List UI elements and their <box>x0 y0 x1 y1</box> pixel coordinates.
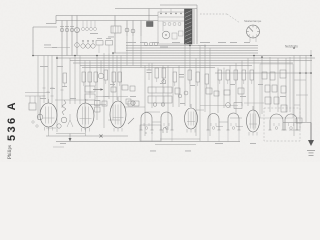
label <box>108 36 114 39</box>
wire bus 3 <box>126 50 258 52</box>
capacitor C14 <box>162 80 166 84</box>
wire dashed diagonal <box>227 14 240 23</box>
wire <box>230 117 242 119</box>
capacitor trimmer row C1-C4 <box>60 16 80 56</box>
resistor R30 <box>130 86 135 91</box>
tube socket S6 <box>269 114 285 130</box>
label <box>90 32 98 35</box>
wire <box>167 66 169 131</box>
wire <box>103 53 105 128</box>
wire <box>199 46 201 142</box>
resistor R25 <box>134 101 139 106</box>
label <box>258 83 263 86</box>
wire <box>162 66 164 107</box>
fuse F1 <box>296 118 302 123</box>
wire <box>116 56 118 101</box>
node junction <box>96 55 98 57</box>
wire <box>200 105 238 107</box>
node junction <box>310 72 312 74</box>
resistor R1 (dark) <box>147 22 154 27</box>
capacitor block left <box>25 96 45 120</box>
wire <box>96 96 128 98</box>
wire <box>277 58 279 112</box>
label <box>95 99 100 102</box>
resistor R31 <box>111 87 116 92</box>
node junction <box>56 57 58 59</box>
wire <box>241 61 243 107</box>
wire <box>305 56 307 123</box>
resistor R27 <box>214 91 219 96</box>
lamp indicator <box>61 117 67 123</box>
wire <box>37 56 39 121</box>
wire <box>108 53 110 99</box>
capacitor C12 <box>179 75 184 78</box>
resistor R28 <box>238 88 244 94</box>
wire <box>144 66 146 137</box>
wire <box>140 21 142 37</box>
resistor network <box>148 87 172 106</box>
label <box>110 83 115 86</box>
resistor R26 <box>206 88 212 94</box>
wire <box>289 129 300 131</box>
wire <box>195 58 197 136</box>
wire bus 10 <box>82 67 215 69</box>
wire <box>89 61 91 99</box>
resistor R24 <box>128 101 133 106</box>
wire <box>196 109 204 111</box>
capacitor C13 <box>98 73 104 79</box>
label <box>280 95 286 98</box>
svg-text:Philips: Philips <box>8 145 13 159</box>
wire antenna lead <box>33 27 57 56</box>
wire <box>217 68 219 114</box>
wire <box>108 119 120 121</box>
node junction <box>253 55 255 57</box>
capacitor group right <box>226 103 242 109</box>
label brand Philips <box>8 145 13 159</box>
wire <box>209 48 211 136</box>
resistor R4 <box>88 72 92 86</box>
resistor R21 <box>224 90 230 95</box>
label <box>230 41 237 44</box>
label <box>160 82 166 85</box>
wire <box>253 56 255 131</box>
node <box>299 72 301 74</box>
transformer T2 power unit <box>260 64 293 118</box>
node junction <box>261 56 263 58</box>
label <box>250 142 256 145</box>
svg-text:Netztrafo: Netztrafo <box>285 45 298 49</box>
capacitor trimmers pre-box <box>144 42 158 46</box>
label <box>244 41 250 44</box>
wire <box>145 111 160 113</box>
resistor R3 <box>82 72 86 86</box>
inductor zigzag <box>62 100 66 115</box>
resistor R20 <box>175 88 180 94</box>
label <box>57 65 63 68</box>
wire <box>43 56 45 104</box>
label <box>52 46 57 49</box>
capacitor trimmer group C7-C9 <box>81 38 113 53</box>
wire <box>294 79 306 81</box>
resistor R10 <box>162 68 166 82</box>
wire <box>310 50 312 140</box>
capacitor C16 <box>131 101 135 105</box>
wire heater link <box>152 121 161 123</box>
capacitor C6 <box>131 21 135 37</box>
wire <box>74 56 76 105</box>
wire <box>96 56 98 121</box>
wire <box>247 58 249 106</box>
capacitor C17 <box>184 91 188 95</box>
tube socket S7 <box>284 114 299 130</box>
wire bus 6 <box>56 57 315 59</box>
label <box>40 97 46 100</box>
wire <box>148 9 150 22</box>
label <box>218 41 226 44</box>
label model 536 A <box>6 100 18 141</box>
wire tube pin V1 <box>48 127 50 136</box>
wire <box>100 61 102 74</box>
node junction <box>112 52 114 54</box>
label <box>185 150 191 153</box>
wire <box>25 92 50 94</box>
wire top bus 1 <box>56 15 158 17</box>
wire <box>235 63 237 113</box>
wire <box>120 56 122 127</box>
label <box>130 95 136 98</box>
wire <box>236 126 243 128</box>
label <box>152 41 159 44</box>
wire <box>69 58 71 104</box>
transformer T1 core (hatched) <box>185 9 193 44</box>
wire <box>132 36 134 66</box>
wire ground bus <box>56 141 240 143</box>
terminal <box>36 125 38 127</box>
wire <box>160 9 162 13</box>
label <box>160 46 168 49</box>
node junction <box>204 45 206 47</box>
tube V5 <box>247 106 260 136</box>
wire <box>79 56 81 105</box>
wire right link <box>283 122 311 124</box>
tube socket S3 <box>160 112 174 141</box>
wire <box>56 133 85 135</box>
wire top feed <box>115 5 197 9</box>
wire <box>55 99 88 101</box>
resistor R2 <box>63 73 67 87</box>
resistor R18 <box>242 70 246 84</box>
resistor R17 <box>234 70 238 84</box>
wire bottom left stub <box>53 146 64 148</box>
lamp bump <box>163 128 167 134</box>
node junction <box>189 45 191 47</box>
ground arrow <box>308 140 314 146</box>
node junction <box>74 55 76 57</box>
tube V3 <box>110 97 126 132</box>
node junction <box>310 55 312 57</box>
resistor R12 <box>188 70 192 84</box>
wire <box>51 56 53 104</box>
capacitor small row <box>82 21 97 31</box>
wire bus 5 <box>33 55 312 57</box>
resistor R16 <box>226 70 230 84</box>
node <box>305 72 307 74</box>
tube V4 <box>185 104 198 133</box>
wire bus 11 <box>215 72 312 74</box>
resistor R7 <box>112 72 116 86</box>
wire <box>293 56 295 137</box>
capacitor C11 <box>147 63 152 80</box>
label <box>70 97 76 100</box>
label <box>62 85 67 88</box>
node tick <box>61 89 64 91</box>
wire <box>269 57 271 112</box>
wire <box>223 68 225 109</box>
tube socket S5 <box>227 113 241 141</box>
wire shield lines <box>194 9 197 44</box>
wire dashed link <box>200 13 227 15</box>
node tick <box>47 91 50 93</box>
label <box>60 142 66 145</box>
label <box>40 65 48 68</box>
svg-text:536 A: 536 A <box>6 100 18 141</box>
resistor R5 <box>94 72 98 86</box>
resistor R11 <box>173 72 177 86</box>
wire <box>44 47 70 49</box>
wire <box>178 66 180 108</box>
label <box>103 95 109 98</box>
wire heater link 2 <box>219 121 228 123</box>
label <box>230 83 235 86</box>
resistor R15 <box>218 70 222 84</box>
label part number <box>307 150 315 156</box>
wire <box>112 53 114 120</box>
node tick <box>51 87 54 89</box>
tube V1 <box>40 99 57 131</box>
wire <box>47 56 49 104</box>
wire <box>61 56 63 109</box>
wire arrow drop <box>310 123 312 141</box>
label <box>126 41 136 44</box>
tuning unit box with coils <box>158 12 186 44</box>
lamp dial scale <box>244 19 262 42</box>
node tick <box>51 95 54 97</box>
wire <box>285 58 287 112</box>
wire <box>299 56 301 131</box>
wire <box>296 94 308 96</box>
wire <box>204 46 206 113</box>
wire <box>172 68 174 108</box>
terminal <box>32 121 34 123</box>
label <box>200 41 210 44</box>
wire bus 8 <box>73 62 293 64</box>
resistor R8 <box>118 72 122 86</box>
wire bus 9 <box>80 65 252 67</box>
wire <box>56 56 58 133</box>
wire <box>170 9 172 13</box>
chassis box <box>140 125 161 141</box>
resistor stack <box>85 86 95 100</box>
wire <box>294 104 300 106</box>
node junction <box>293 47 295 49</box>
node tick <box>43 87 46 89</box>
wire tube pin V2 <box>85 128 87 136</box>
capacitor C5 <box>125 21 129 37</box>
node x-mark <box>100 135 103 138</box>
node mark <box>145 132 152 133</box>
wire bottom 3 <box>155 144 196 146</box>
wire <box>126 36 128 66</box>
ground spear <box>69 134 72 142</box>
resistor R22 <box>126 99 131 104</box>
capacitor C15 <box>178 94 182 98</box>
label <box>215 142 223 145</box>
wire <box>229 66 231 109</box>
resistor R13 <box>196 72 200 86</box>
wire <box>140 36 142 68</box>
lamp indicator 2 <box>57 124 61 128</box>
resistor pair <box>95 101 101 113</box>
wire bus 4 <box>113 52 258 54</box>
wire <box>46 127 56 129</box>
label <box>180 102 185 105</box>
wire <box>151 63 153 108</box>
node tick <box>89 91 92 93</box>
wire <box>216 126 223 128</box>
wire <box>184 44 186 106</box>
capacitor trimmer C10 <box>75 43 80 48</box>
label <box>240 95 246 98</box>
wire top bus 2 <box>56 20 158 22</box>
resistor R19 <box>250 70 254 84</box>
node tick <box>43 95 46 97</box>
wire Y-split <box>67 114 73 127</box>
label <box>150 150 156 153</box>
wire <box>289 57 291 112</box>
node junction <box>32 55 34 57</box>
label <box>172 41 180 44</box>
wire <box>84 61 86 131</box>
svg-text:Skalenlampe: Skalenlampe <box>244 19 262 23</box>
label <box>190 84 195 87</box>
tube V2 <box>77 99 94 132</box>
tube socket S4 <box>207 114 221 142</box>
arrow pointer <box>93 88 103 90</box>
resistor R9 <box>155 68 159 82</box>
wire <box>88 104 106 106</box>
wire <box>261 57 263 114</box>
tube socket S2 <box>140 113 154 142</box>
rectifier dashed box <box>264 108 300 141</box>
wire stub <box>46 16 56 24</box>
resistor R14 <box>205 74 209 88</box>
wire bus 7 <box>70 60 312 62</box>
resistor R6 <box>104 70 108 84</box>
inductor L1 <box>111 16 121 54</box>
label <box>50 87 55 90</box>
wire bottom 2 <box>160 138 200 140</box>
wire <box>189 44 191 107</box>
wire bus 2 <box>126 47 258 49</box>
wire bottom 1 <box>46 135 128 137</box>
wire <box>244 102 264 104</box>
label <box>198 44 206 47</box>
wire bus 1 <box>126 45 258 47</box>
wire <box>124 106 145 108</box>
resistor R23 <box>102 101 107 106</box>
label <box>140 41 147 44</box>
resistor R29 <box>122 85 128 90</box>
switch S1 <box>128 118 134 124</box>
label <box>44 44 51 47</box>
